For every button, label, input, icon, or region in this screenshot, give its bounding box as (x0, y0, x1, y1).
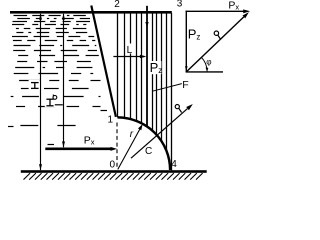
svg-text:L: L (127, 45, 133, 56)
resultant force P (main figure arrow through C) (131, 104, 193, 158)
dashed line 1-0 (116, 123, 118, 170)
label H (rotated, drawn as I-beam) (29, 80, 40, 90)
ground hatching (24, 173, 203, 180)
svg-text:2: 2 (114, 0, 120, 10)
vertical boundary line 2-1 (117, 13, 119, 117)
dimension line H (surface to ground) (40, 14, 42, 170)
curved surface 1-C-4 (arc) (118, 117, 171, 170)
slanted wall (top to point 1) (91, 6, 116, 117)
vertical boundary line 3-4 (171, 13, 173, 170)
svg-text:Px: Px (228, 0, 239, 12)
svg-text:r: r (130, 129, 134, 140)
label P (rho-like glyph, main figure) (175, 105, 181, 113)
water surface / top line 2-3 (10, 11, 172, 14)
label h_d (rotated H with small subscript ring) (45, 94, 58, 108)
force line Pz (thick vertical with down arrow) (145, 6, 148, 127)
triangle: angle arc phi (201, 57, 208, 71)
svg-text:4: 4 (171, 159, 177, 170)
force arrow Px (main figure) (45, 147, 117, 151)
triangle: Pz arrow (vertical) (185, 11, 188, 72)
dimension arrow L (113, 55, 146, 58)
svg-text:Px: Px (84, 134, 95, 146)
leader line to label F (152, 84, 182, 92)
dimension line h_d (surface to Px line) (63, 14, 65, 148)
svg-text:3: 3 (177, 0, 183, 10)
svg-text:C: C (145, 146, 152, 157)
ground line (21, 170, 207, 173)
svg-text:F: F (182, 79, 188, 91)
triangle: Px arrow (horizontal) (186, 9, 251, 13)
triangle: bottom reference line (186, 71, 223, 73)
svg-text:φ: φ (206, 58, 211, 67)
water surface hatching (dashes) (8, 16, 107, 145)
svg-text:Pz: Pz (188, 27, 201, 42)
triangle: resultant P diagonal (186, 12, 249, 72)
vertical hatch lines of pressure-body F (125, 14, 167, 151)
svg-text:0: 0 (110, 160, 116, 171)
triangle: label P (rho-like glyph) (214, 31, 221, 40)
radius r with arrow to arc (118, 124, 143, 169)
svg-text:1: 1 (108, 114, 114, 125)
